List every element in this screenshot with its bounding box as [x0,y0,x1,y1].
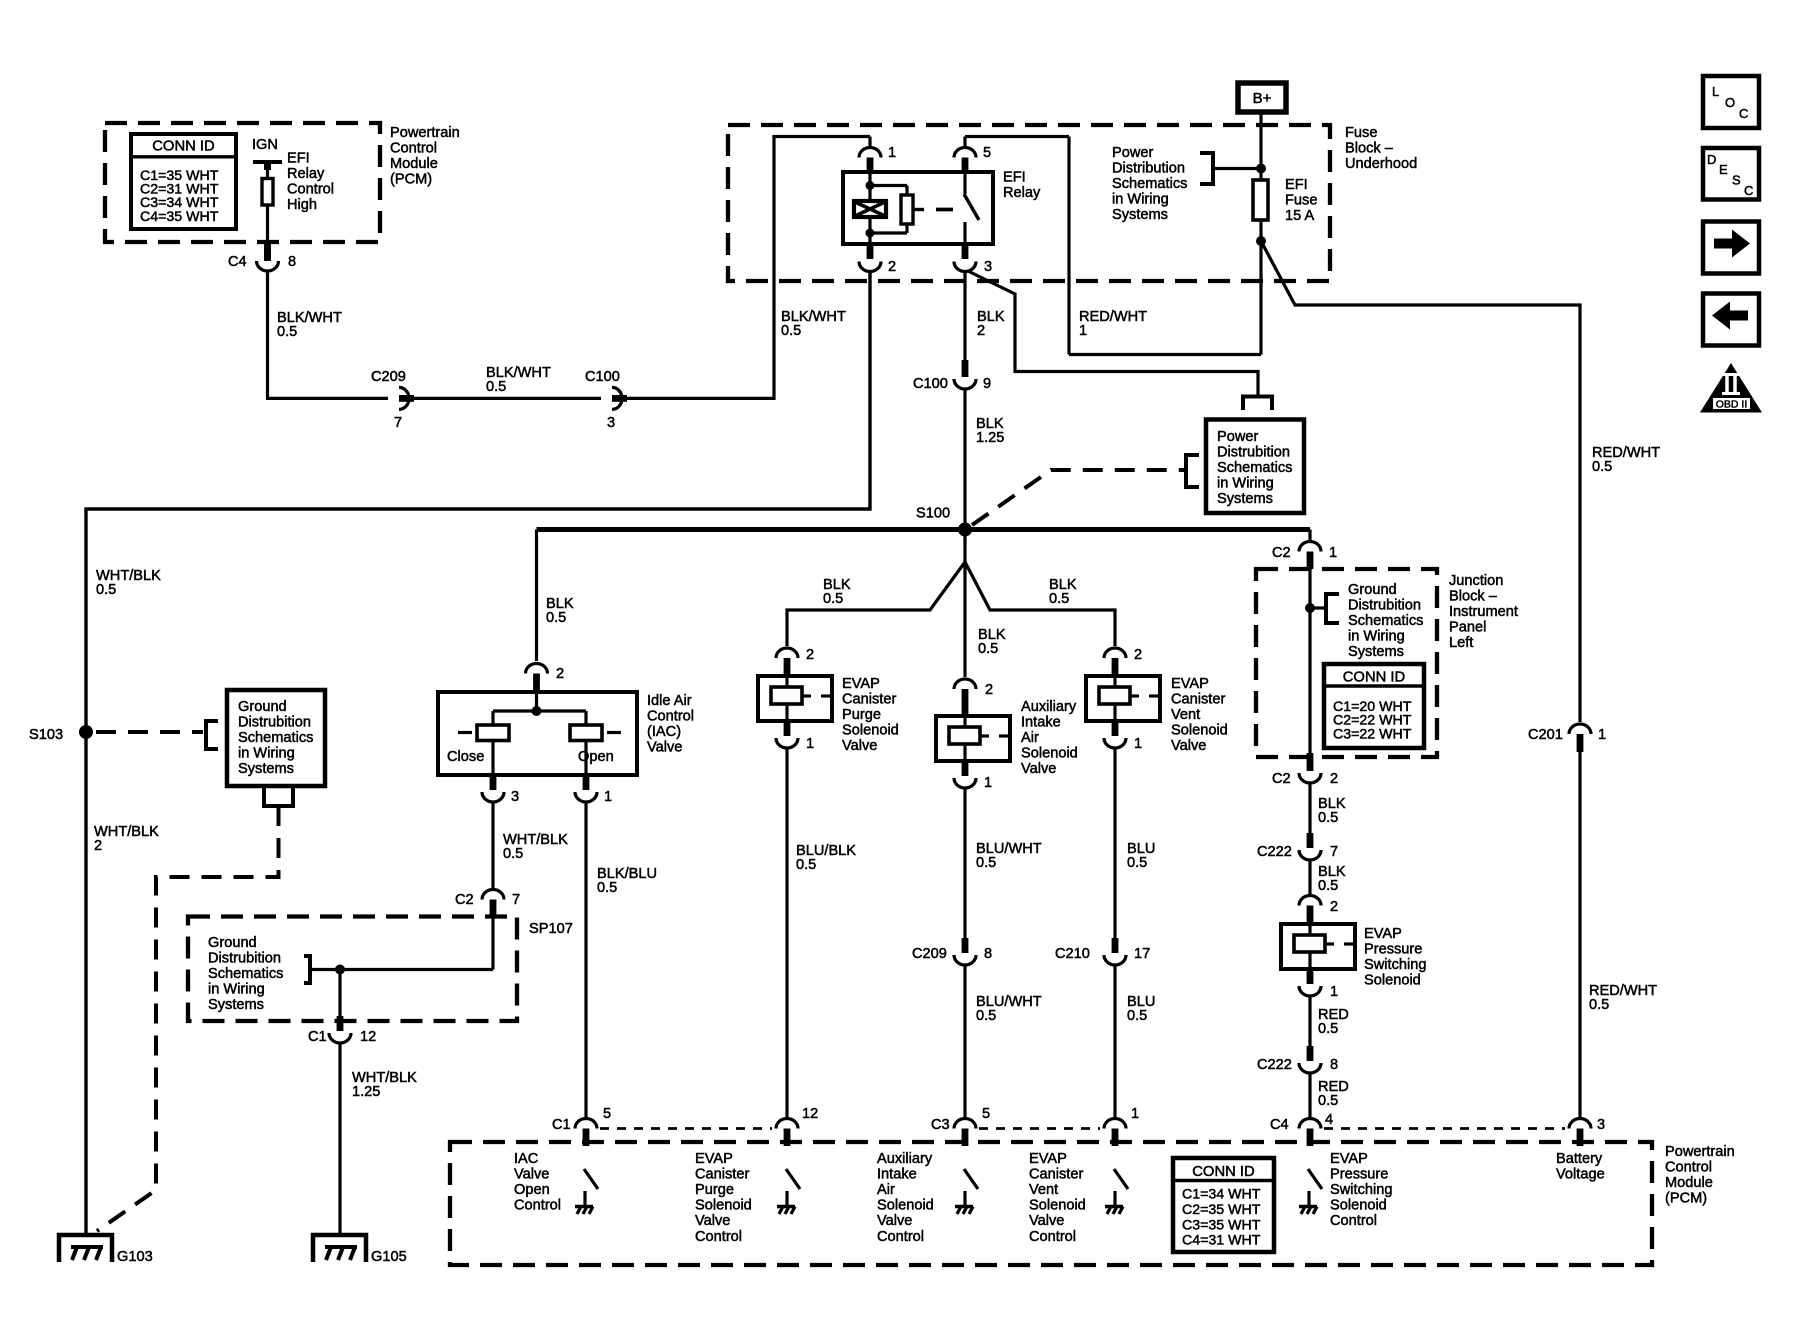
connector C1 pin 12 (below SP107) [308,970,376,1046]
wire battery feed down to fuse [1259,112,1262,180]
relay pin 3 connector [954,244,992,275]
svg-text:S100: S100 [916,506,950,522]
wire RED 0.5 to C222-8 [1308,997,1311,1048]
connector C100 pin 9 (in-line) [913,360,991,392]
fuse EFI Fuse 15 A [1253,180,1268,220]
svg-text:1: 1 [1134,736,1142,752]
svg-text:1: 1 [1329,545,1337,561]
EVAP Canister Purge Solenoid Valve box [758,676,832,721]
svg-text:C3: C3 [931,1117,950,1133]
EVAP Pressure Switching Solenoid pin 2 connector [1299,896,1338,925]
svg-text:3: 3 [511,789,519,805]
svg-text:IGN: IGN [252,137,278,153]
svg-text:C4: C4 [1270,1117,1289,1133]
node junction block tap [1305,594,1339,623]
wire BLK/WHT 0.5 from relay pin 2 to left margin [86,273,870,1236]
svg-text:3: 3 [984,259,992,275]
svg-text:CONN ID: CONN ID [152,139,214,155]
IAC valve internals (Close and Open coils) [458,692,621,775]
dotted connector grouping line C4 [1324,1127,1565,1130]
svg-text:2: 2 [1330,771,1338,787]
icon OBD II triangle [1700,363,1762,413]
svg-text:C1=20 WHTC2=22 WHTC3=22 WHT: C1=20 WHTC2=22 WHTC3=22 WHT [1333,699,1412,742]
svg-text:12: 12 [360,1029,376,1045]
connector C210 pin 17 (in-line) [1055,938,1150,965]
svg-text:1: 1 [1330,984,1338,1000]
svg-text:C209: C209 [912,946,947,962]
wire from relay pin 3 to Power Distrubition reference [968,271,1272,410]
Auxiliary Intake Air Solenoid Valve box [936,716,1010,761]
svg-text:C4: C4 [228,254,247,270]
B+ battery feed symbol [1238,83,1286,112]
wire BLU/BLK 0.5 from purge valve to PCM [785,749,788,1117]
node S100 splice [916,506,972,537]
svg-text:S: S [1732,173,1741,188]
svg-text:1: 1 [1131,1106,1139,1122]
svg-text:1: 1 [1598,727,1606,743]
svg-text:5: 5 [982,1106,990,1122]
S100 branch split to solenoid valves [787,530,1115,678]
Fuse Block - Underhood dashed outline [728,125,1330,281]
dotted connector grouping line C3 [979,1127,1100,1130]
connector C3 pin 5 (PCM) [931,1106,990,1146]
CONN ID table (junction block) [1324,664,1424,748]
ground G105 [313,1235,407,1265]
connector C4 pin 3 (PCM) [1569,1117,1605,1146]
svg-text:C222: C222 [1257,1057,1292,1073]
svg-text:C210: C210 [1055,946,1090,962]
EVAP Pressure Switching Solenoid box [1281,924,1355,969]
connector C1 pin 5 (PCM) [552,1106,611,1146]
node fuse bottom junction [1256,236,1266,246]
dotted connector grouping line C1 [600,1127,772,1130]
svg-text:S103: S103 [29,727,63,743]
wire S100 ground bus (heavy) [537,527,1311,532]
icon DESC button [1703,148,1759,200]
svg-text:2: 2 [1330,899,1338,915]
svg-text:C1=34 WHTC2=35 WHTC3=35 WHTC4=: C1=34 WHTC2=35 WHTC3=35 WHTC4=31 WHT [1182,1187,1261,1249]
wire RED/WHT 0.5 to PCM pin 3 [1578,752,1581,1117]
svg-text:C: C [1744,183,1753,198]
svg-text:1: 1 [888,145,896,161]
svg-text:C1: C1 [552,1117,571,1133]
wire BLK 0.5 to solenoid pin 2 [1308,861,1311,894]
connector C222 pin 8 (in-line) [1257,1046,1338,1073]
svg-text:C2: C2 [455,892,474,908]
Power Distrubition reference box (below fuse block) [1206,420,1304,514]
Ground Distrubition reference text (SP107) [208,935,310,1013]
Ground Distrubition reference box (S103) [227,690,325,786]
svg-text:BLK1.25: BLK1.25 [976,416,1004,446]
relay mechanical link (dashed) [913,208,953,211]
switch EVAP pressure driver [1299,1169,1322,1214]
switch EVAP purge driver [777,1169,800,1214]
node SP107 junction [335,965,345,975]
svg-text:C209: C209 [371,369,406,385]
connector C1 pin 12 (PCM) [776,1106,818,1146]
connector C209 pin 8 (in-line) [912,938,992,965]
wire WHT/BLK 1.25 to G105 [338,1044,341,1235]
svg-text:5: 5 [603,1106,611,1122]
wire BLK 0.5 to C222-7 [1308,784,1311,835]
svg-text:CONN ID: CONN ID [1192,1164,1254,1180]
svg-text:Close: Close [447,749,484,765]
icon LOC button [1703,76,1759,128]
CONN ID table (PCM bottom) [1173,1158,1274,1252]
aux intake pin 1 connector [954,761,992,791]
EVAP vent pin 1 connector [1104,721,1142,752]
SP107 dashed splice pack box [188,917,517,1022]
switch EVAP vent driver [1105,1169,1128,1214]
node fuse top junction [1256,164,1266,174]
wire through junction block [1308,569,1311,753]
EFI relay control resistor symbol inside PCM [262,170,273,244]
svg-text:C2: C2 [1272,545,1291,561]
svg-text:7: 7 [394,415,402,431]
Junction Block - Instrument Panel Left dashed box [1256,569,1437,757]
IAC pin 1 connector [575,775,612,805]
relay pin 2 connector [859,244,896,275]
svg-text:G105: G105 [371,1249,407,1265]
dashed reference wire down to G103 [97,806,279,1231]
svg-text:E: E [1719,162,1728,177]
ground G103 [59,1235,153,1265]
svg-text:1: 1 [604,789,612,805]
svg-text:C222: C222 [1257,844,1292,860]
connector C201 pin 1 (in-line) [1528,724,1606,752]
relay pin 5 connector [954,137,991,173]
svg-text:C100: C100 [913,376,948,392]
bracket to Power Distribution reference (fuse block) [1200,153,1258,184]
EVAP Canister Purge Solenoid Valve pin 2 connector [776,647,814,676]
wire BLU 0.5 to PCM C3-1 [1113,966,1116,1117]
svg-text:8: 8 [288,254,296,270]
PCM (top) dashed outline box [105,123,380,242]
CONN ID table (PCM top) [131,134,236,229]
bracket below Ground Distrubition box [264,786,293,806]
svg-text:7: 7 [512,892,520,908]
Auxiliary Intake Air Solenoid Valve pin 2 connector [954,679,993,716]
svg-text:G103: G103 [117,1249,153,1265]
svg-text:C100: C100 [585,369,620,385]
connector C2 pin 1 (into junction block) [1272,530,1337,570]
svg-text:BatteryVoltage: BatteryVoltage [1556,1151,1605,1183]
svg-text:1: 1 [806,736,814,752]
svg-text:4: 4 [1325,1112,1333,1128]
svg-text:C2: C2 [1272,771,1291,787]
wire BLU 0.5 from vent valve [1113,749,1116,938]
svg-text:2: 2 [888,259,896,275]
wire below fuse [1259,220,1262,355]
svg-text:5: 5 [983,145,991,161]
svg-text:D: D [1707,152,1716,167]
svg-text:2: 2 [556,666,564,682]
svg-text:2: 2 [806,647,814,663]
connector C2 pin 2 (leaving junction block) [1272,753,1338,787]
wire BLK 0.5 branch to IAC valve [535,530,538,662]
svg-text:1: 1 [984,775,992,791]
svg-text:L: L [1712,84,1719,99]
EFI relay box [843,172,993,244]
svg-text:C1=35 WHTC2=31 WHTC3=34 WHTC4=: C1=35 WHTC2=31 WHTC3=34 WHTC4=35 WHT [140,168,219,225]
connector C3 pin 1 (PCM) [1104,1106,1139,1146]
wire BLU/WHT 0.5 from aux valve [963,789,966,938]
EVAP purge pin 1 connector [776,721,814,752]
svg-text:12: 12 [802,1106,818,1122]
connector C100 pin 3 (in-line) [585,369,627,431]
svg-text:8: 8 [984,946,992,962]
svg-text:C1: C1 [308,1029,327,1045]
svg-text:3: 3 [1597,1117,1605,1133]
switch IAC valve open control driver [575,1169,598,1214]
PCM (bottom) dashed outline box [450,1142,1652,1265]
svg-text:Open: Open [578,749,614,765]
wire BLK/WHT 0.5 from C4-8 down [266,272,269,400]
svg-text:9: 9 [983,376,991,392]
wire BLK 1.25 to S100 [963,390,966,530]
IAC valve pin 2 connector [526,664,565,693]
switch aux intake driver [955,1169,978,1214]
connector C209 pin 7 (in-line) [371,369,414,431]
relay pin 1 connector [859,137,896,173]
svg-text:C201: C201 [1528,727,1563,743]
node S103 splice [29,725,93,743]
dashed reference from S100 to Power Distrubition box [972,455,1199,525]
connector C222 pin 7 (in-line) [1257,833,1338,860]
wire BLK/BLU 0.5 from IAC pin 1 to PCM [584,803,587,1117]
svg-text:2: 2 [985,682,993,698]
Idle Air Control valve box [438,692,637,775]
wire WHT/BLK 0.5 from IAC pin 3 [491,803,494,888]
svg-text:CONN ID: CONN ID [1343,670,1405,686]
svg-text:O: O [1725,95,1735,110]
IAC pin 3 connector [482,775,519,805]
svg-text:17: 17 [1134,946,1150,962]
EVAP Canister Vent Solenoid Valve box [1086,676,1160,721]
connector C4 pin 4 (PCM) [1270,1112,1333,1146]
svg-text:8: 8 [1330,1057,1338,1073]
wire RED/WHT 0.5 diagonal from fuse to right margin [1261,241,1580,722]
svg-text:B+: B+ [1253,90,1272,107]
wire RED 0.5 to PCM C4-4 [1308,1074,1311,1117]
svg-text:2: 2 [1134,647,1142,663]
connector C4 pin 8 (PCM top) [228,244,296,271]
svg-text:OBD II: OBD II [1716,399,1748,411]
IGN feed terminal [252,137,282,170]
relay switch contact [964,172,979,244]
icon forward arrow button [1703,222,1759,274]
wire inside SP107 from bracket to C2-7 [310,917,493,970]
wire RED/WHT 1 from fuse to relay pin 5 [965,137,1261,355]
wire BLK 2 from relay pin 3 down [963,273,966,361]
icon back arrow button [1703,294,1759,346]
wire BLK/WHT horizontal run to relay [268,137,871,401]
connector C2 pin 7 (into SP107) [455,890,520,917]
svg-text:7: 7 [1330,844,1338,860]
wire BLU/WHT 0.5 to PCM C3-5 [963,966,966,1117]
EVAP pressure solenoid pin 1 connector [1299,969,1338,1000]
dashed reference from S103 to Ground Distrubition box [96,721,218,749]
EVAP Canister Vent Solenoid Valve pin 2 connector [1104,647,1142,676]
relay coil with parallel resistor [854,172,913,244]
svg-text:3: 3 [607,415,615,431]
svg-text:SP107: SP107 [529,921,573,937]
svg-text:C: C [1739,106,1748,121]
